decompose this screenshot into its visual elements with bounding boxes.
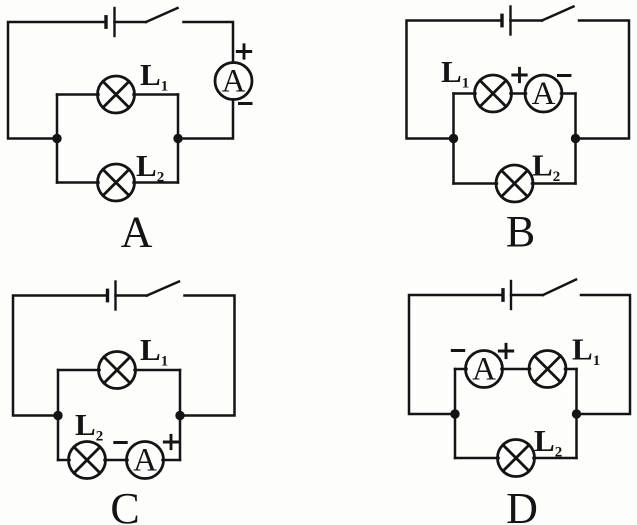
svg-text:D: D xyxy=(506,484,538,525)
wire: battery to top-left corner and down to left node xyxy=(8,22,106,139)
wire: switch contact to top-right corner down to right node xyxy=(581,295,630,414)
battery cell: short plate xyxy=(104,17,107,27)
polarity - (ammeter A) xyxy=(559,74,570,77)
polarity + (ammeter A) xyxy=(513,68,526,81)
polarity - (ammeter A) xyxy=(115,441,126,444)
svg-text:L1: L1 xyxy=(140,332,168,370)
circuit A xyxy=(8,8,252,257)
ammeter A xyxy=(215,63,252,100)
wire: ammeter to right vertical xyxy=(163,459,181,462)
wire: battery to top-left corner and down to left node xyxy=(409,295,502,414)
svg-text:A: A xyxy=(133,443,157,479)
svg-text:L2: L2 xyxy=(136,148,164,186)
wire: battery to switch pivot xyxy=(115,21,147,24)
svg-text:L2: L2 xyxy=(532,148,560,186)
lamp L2 xyxy=(498,440,535,477)
junction node (right) xyxy=(572,409,581,418)
wire: battery to switch pivot xyxy=(116,294,148,297)
wire: top branch left segment xyxy=(58,369,100,372)
wire: ammeter down to right node xyxy=(183,100,233,139)
junction node (left) xyxy=(53,411,62,420)
wire: parallel branch left vertical xyxy=(454,369,457,458)
battery cell: long plate xyxy=(510,281,512,309)
svg-text:L1: L1 xyxy=(140,57,168,95)
wire: bottom branch left segment xyxy=(57,181,99,184)
lamp L2 xyxy=(496,165,533,202)
battery cell: short plate xyxy=(501,290,504,300)
ammeter A xyxy=(525,75,562,112)
wire: top branch left segment xyxy=(57,93,99,96)
wire: parallel branch left vertical xyxy=(57,370,60,460)
svg-text:A: A xyxy=(121,208,153,257)
wire: switch contact to top-right corner down to right node xyxy=(185,296,235,416)
wire: parallel branch left vertical xyxy=(56,95,59,183)
junction node (right) xyxy=(175,411,184,420)
wire: bottom branch right segment xyxy=(134,181,179,184)
junction node (right) xyxy=(571,134,580,143)
battery cell: long plate xyxy=(113,8,115,36)
wire: parallel branch right vertical xyxy=(574,94,577,184)
battery cell: short plate xyxy=(500,15,503,25)
svg-text:L1: L1 xyxy=(441,54,469,92)
svg-text:A: A xyxy=(222,64,246,100)
wire: lamp L2 to ammeter xyxy=(105,459,128,462)
svg-text:C: C xyxy=(110,484,139,525)
lamp L2 xyxy=(98,164,135,201)
ammeter A xyxy=(466,351,503,388)
wire: top branch segment to lamp L1 xyxy=(454,92,476,95)
svg-text:L2: L2 xyxy=(75,407,103,445)
wire: battery to top-left corner and down to left node xyxy=(407,21,501,139)
wire: bottom branch right segment xyxy=(532,182,576,185)
ammeter A xyxy=(127,442,164,479)
wire: bottom branch left segment xyxy=(455,457,499,460)
wire: top branch right segment xyxy=(134,93,179,96)
junction node (right) xyxy=(173,134,182,143)
polarity + (ammeter A) xyxy=(164,435,177,448)
wire: bottom branch left segment xyxy=(454,182,498,185)
polarity + (ammeter A) xyxy=(237,45,250,58)
polarity - (ammeter A) xyxy=(452,349,463,352)
wire: battery to switch pivot xyxy=(511,294,543,297)
wire: top branch segment to ammeter xyxy=(455,368,467,371)
lamp L1 xyxy=(475,75,512,112)
wire: battery to switch pivot xyxy=(511,19,543,22)
switch S (open blade) xyxy=(146,8,178,22)
wire: parallel branch left vertical xyxy=(452,94,455,184)
svg-text:A: A xyxy=(532,76,556,112)
lamp L1 xyxy=(529,351,566,388)
circuit C xyxy=(13,282,235,525)
wire: parallel branch right vertical xyxy=(179,370,182,460)
lamp L1 xyxy=(99,352,136,389)
junction node (left) xyxy=(450,409,459,418)
battery cell: long plate xyxy=(114,282,116,310)
wire: ammeter to right vertical xyxy=(561,92,576,95)
wire: top branch right segment xyxy=(135,369,181,372)
svg-text:B: B xyxy=(506,207,535,256)
junction node (left) xyxy=(449,134,458,143)
lamp L1 xyxy=(98,76,135,113)
wire: bottom branch left segment xyxy=(58,459,70,462)
wire: switch contact to top-right corner down to right node xyxy=(579,21,629,139)
wire: lamp L1 to right vertical xyxy=(565,368,577,371)
wire: bottom branch right segment xyxy=(534,457,577,460)
lamp L2 xyxy=(69,442,106,479)
junction node (left) xyxy=(52,134,61,143)
wire: parallel branch right vertical xyxy=(177,95,180,183)
wire: switch contact to top-right corner down to ammeter xyxy=(184,22,234,63)
svg-text:A: A xyxy=(472,352,496,388)
svg-text:L1: L1 xyxy=(572,332,600,370)
switch S (open blade) xyxy=(542,7,574,21)
wire: ammeter to lamp L1 xyxy=(502,368,531,371)
wire: parallel branch right vertical xyxy=(575,369,578,458)
switch S (open blade) xyxy=(147,282,179,296)
battery cell: short plate xyxy=(106,290,109,300)
circuit D xyxy=(409,280,630,525)
wire: lamp L1 to ammeter xyxy=(511,92,527,95)
circuit B xyxy=(407,7,630,257)
svg-text:L2: L2 xyxy=(534,423,562,461)
switch S (open blade) xyxy=(543,280,576,296)
battery cell: long plate xyxy=(509,7,511,35)
polarity - (ammeter A) xyxy=(240,102,252,105)
wire: battery to top-left corner and down to left node xyxy=(13,296,106,416)
polarity + (ammeter A) xyxy=(499,344,512,357)
